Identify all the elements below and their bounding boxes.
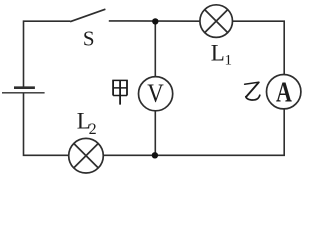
lamp L2 cross	[74, 144, 98, 168]
lamp L1 circle	[200, 5, 233, 38]
wire: voltmeter down to node B	[154, 111, 156, 156]
svg-text:S: S	[83, 26, 95, 50]
wire: battery negative down left side and bottom-left to lamp L2	[24, 93, 70, 155]
svg-text:V: V	[147, 80, 164, 109]
label jia (甲) for voltmeter	[112, 80, 128, 105]
svg-text:1: 1	[225, 53, 233, 69]
svg-text:L: L	[211, 41, 225, 66]
wire: battery positive up left side and top-left to switch	[24, 21, 71, 86]
wire: node A down to voltmeter	[154, 21, 156, 76]
lamp L1 cross	[205, 10, 228, 33]
wire: lamp L1 to ammeter, top-right corner	[232, 21, 284, 74]
voltmeter U1 circle	[139, 77, 173, 111]
switch S lever	[70, 9, 105, 22]
node B junction dot	[152, 152, 158, 158]
svg-text:A: A	[276, 76, 292, 109]
svg-text:2: 2	[89, 121, 97, 138]
wire: switch right contact to lamp L1	[109, 20, 201, 22]
wire: ammeter to bottom-right corner to node B	[156, 109, 284, 155]
node A junction dot	[152, 18, 158, 24]
battery B1 short plate	[14, 86, 35, 89]
label yi (乙) for ammeter	[245, 82, 260, 100]
wire: node B to lamp L2	[103, 154, 155, 156]
lamp L2 circle	[69, 138, 104, 173]
battery B1 long plate	[2, 92, 45, 94]
ammeter U2 circle	[267, 75, 301, 109]
